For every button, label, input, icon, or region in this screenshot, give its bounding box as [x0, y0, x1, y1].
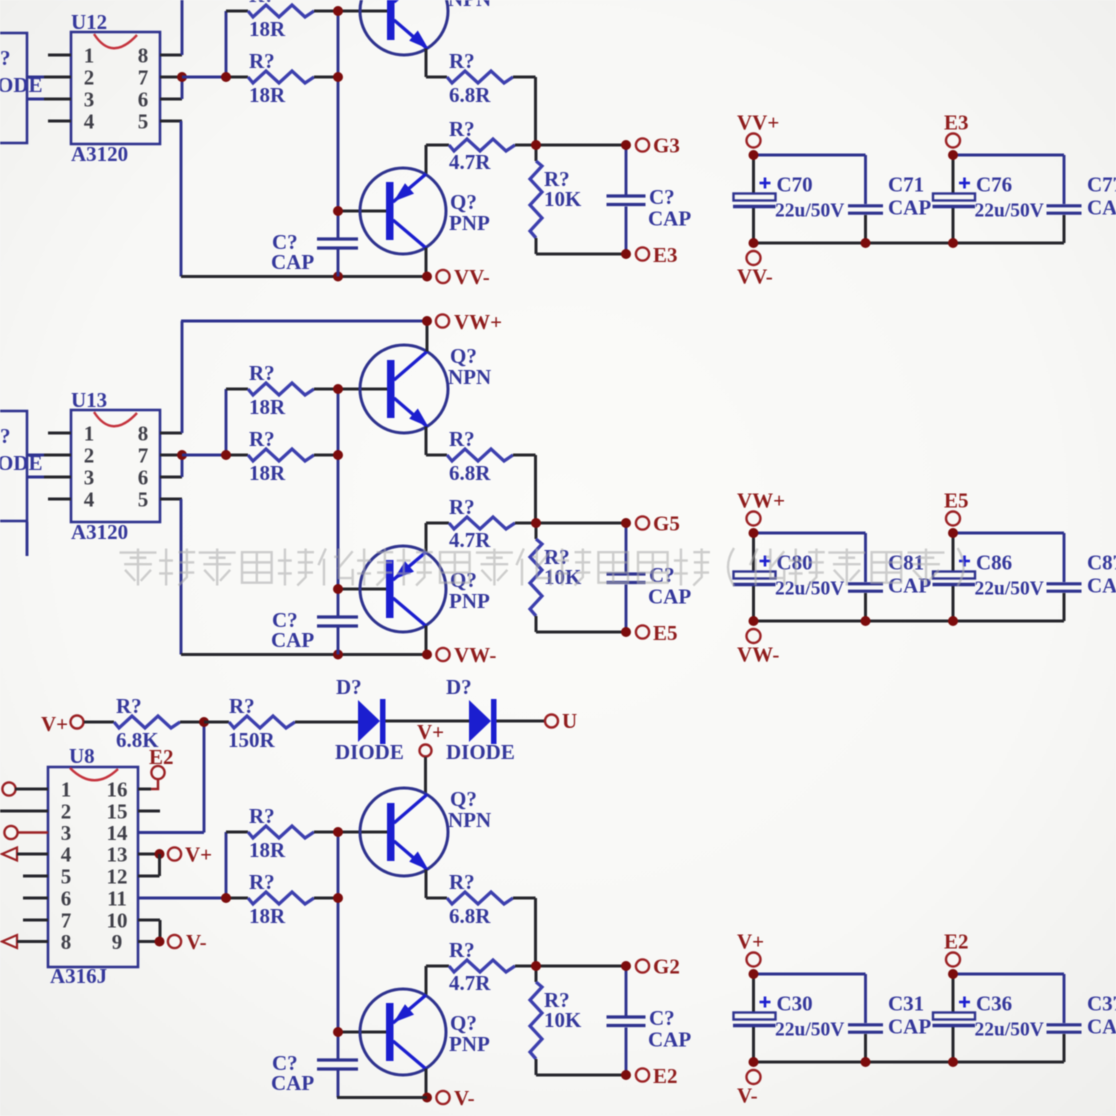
svg-text:4: 4: [84, 110, 95, 134]
svg-text:14: 14: [107, 821, 129, 845]
svg-text:PNP: PNP: [449, 211, 490, 235]
svg-text:16: 16: [107, 778, 128, 802]
svg-text:V-: V-: [737, 1084, 758, 1108]
svg-text:VW-: VW-: [454, 643, 496, 667]
svg-text:5: 5: [138, 488, 149, 512]
svg-text:CAP: CAP: [1087, 574, 1116, 598]
svg-text:C77: C77: [1087, 173, 1116, 197]
svg-text:13: 13: [107, 843, 128, 867]
svg-text:CAP: CAP: [271, 1071, 314, 1095]
svg-text:C?: C?: [649, 1006, 675, 1030]
svg-text:A3120: A3120: [71, 520, 128, 544]
svg-text:E5: E5: [944, 489, 969, 513]
svg-text:CAP: CAP: [888, 1015, 931, 1039]
svg-text:E3: E3: [944, 111, 969, 135]
svg-text:CAP: CAP: [271, 250, 314, 274]
svg-text:22u/50V: 22u/50V: [975, 579, 1044, 600]
svg-text:6: 6: [138, 466, 149, 490]
svg-text:1: 1: [84, 44, 95, 68]
svg-text:18R: 18R: [249, 395, 286, 419]
svg-text:4.7R: 4.7R: [449, 971, 491, 995]
svg-text:CAP: CAP: [648, 207, 691, 231]
svg-text:5: 5: [61, 865, 72, 889]
svg-text:1: 1: [61, 778, 72, 802]
svg-text:11: 11: [107, 887, 127, 911]
svg-text:C71: C71: [888, 173, 924, 197]
svg-text:10K: 10K: [544, 1008, 582, 1032]
svg-text:R?: R?: [249, 0, 275, 7]
svg-text:6.8R: 6.8R: [449, 83, 491, 107]
svg-text:8: 8: [138, 422, 149, 446]
svg-text:7: 7: [61, 909, 72, 933]
svg-text:4: 4: [84, 488, 95, 512]
svg-text:C87: C87: [1087, 551, 1116, 575]
svg-text:G2: G2: [653, 955, 680, 979]
svg-text:V-: V-: [454, 1086, 475, 1110]
svg-text:U12: U12: [71, 10, 107, 34]
svg-text:150R: 150R: [228, 728, 276, 752]
svg-text:R?: R?: [249, 870, 275, 894]
svg-text:G5: G5: [653, 512, 680, 536]
svg-text:C?: C?: [649, 185, 675, 209]
svg-text:6.8K: 6.8K: [116, 728, 159, 752]
svg-text:6.8R: 6.8R: [449, 904, 491, 928]
svg-text:9: 9: [112, 930, 123, 954]
svg-text:?: ?: [0, 46, 11, 70]
svg-text:U: U: [562, 709, 577, 733]
svg-text:22u/50V: 22u/50V: [775, 1020, 844, 1041]
svg-text:2: 2: [84, 444, 95, 468]
svg-text:18R: 18R: [249, 17, 286, 41]
svg-text:NPN: NPN: [448, 0, 491, 11]
svg-text:4: 4: [61, 843, 72, 867]
svg-text:10: 10: [107, 909, 128, 933]
svg-text:6.8R: 6.8R: [449, 461, 491, 485]
svg-text:A316J: A316J: [50, 964, 107, 988]
svg-text:VV+: VV+: [737, 111, 779, 135]
svg-text:8: 8: [61, 930, 72, 954]
svg-text:DIODE: DIODE: [335, 740, 404, 764]
svg-text:R?: R?: [229, 694, 255, 718]
svg-text:VW-: VW-: [737, 643, 779, 667]
svg-text:R?: R?: [249, 361, 275, 385]
svg-text:4.7R: 4.7R: [449, 528, 491, 552]
svg-text:CAP: CAP: [1087, 1015, 1116, 1039]
svg-text:VV-: VV-: [454, 265, 490, 289]
svg-text:22u/50V: 22u/50V: [975, 1020, 1044, 1041]
svg-text:D?: D?: [446, 675, 472, 699]
svg-text:U13: U13: [71, 388, 107, 412]
svg-text:C70: C70: [777, 173, 813, 197]
svg-text:6: 6: [61, 887, 72, 911]
svg-text:V+: V+: [417, 720, 444, 744]
svg-text:ODE: ODE: [0, 451, 43, 475]
svg-text:1: 1: [84, 422, 95, 446]
svg-text:A3120: A3120: [71, 142, 128, 166]
svg-text:2: 2: [61, 800, 72, 824]
svg-text:2: 2: [84, 66, 95, 90]
svg-text:R?: R?: [449, 495, 475, 519]
svg-text:R?: R?: [249, 427, 275, 451]
svg-text:E2: E2: [653, 1064, 678, 1088]
svg-text:18R: 18R: [249, 83, 286, 107]
svg-text:V+: V+: [41, 712, 68, 736]
svg-text:C31: C31: [888, 992, 924, 1016]
svg-text:15: 15: [107, 800, 128, 824]
svg-text:C37: C37: [1087, 992, 1116, 1016]
svg-text:CAP: CAP: [271, 628, 314, 652]
svg-text:V-: V-: [186, 930, 207, 954]
svg-text:PNP: PNP: [449, 1032, 490, 1056]
svg-text:CAP: CAP: [1087, 196, 1116, 220]
svg-text:R?: R?: [249, 49, 275, 73]
svg-text:R?: R?: [116, 694, 142, 718]
svg-text:VW+: VW+: [737, 489, 785, 513]
svg-text:18R: 18R: [249, 838, 286, 862]
svg-text:7: 7: [138, 444, 149, 468]
svg-text:R?: R?: [449, 49, 475, 73]
svg-text:R?: R?: [449, 117, 475, 141]
svg-text:E2: E2: [944, 930, 969, 954]
svg-text:E3: E3: [653, 243, 678, 267]
svg-text:ODE: ODE: [0, 73, 43, 97]
svg-text:3: 3: [84, 466, 95, 490]
svg-text:CAP: CAP: [648, 585, 691, 609]
svg-text:?: ?: [0, 424, 11, 448]
svg-text:CAP: CAP: [648, 1028, 691, 1052]
svg-text:C86: C86: [976, 551, 1012, 575]
svg-text:VV-: VV-: [737, 265, 773, 289]
svg-text:C76: C76: [976, 173, 1012, 197]
svg-text:6: 6: [138, 88, 149, 112]
svg-text:D?: D?: [336, 675, 362, 699]
svg-text:12: 12: [107, 865, 128, 889]
svg-text:U8: U8: [69, 744, 95, 768]
svg-text:R?: R?: [449, 938, 475, 962]
svg-text:22u/50V: 22u/50V: [775, 201, 844, 222]
svg-text:CAP: CAP: [888, 196, 931, 220]
svg-text:R?: R?: [249, 804, 275, 828]
svg-text:E5: E5: [653, 621, 678, 645]
svg-text:V+: V+: [185, 843, 212, 867]
svg-text:NPN: NPN: [448, 365, 491, 389]
svg-text:G3: G3: [653, 134, 680, 158]
svg-text:4.7R: 4.7R: [449, 150, 491, 174]
svg-text:V+: V+: [737, 930, 764, 954]
svg-text:PNP: PNP: [449, 589, 490, 613]
svg-text:DIODE: DIODE: [446, 740, 515, 764]
svg-text:10K: 10K: [544, 187, 582, 211]
svg-text:NPN: NPN: [448, 808, 491, 832]
svg-text:18R: 18R: [249, 461, 286, 485]
svg-text:5: 5: [138, 110, 149, 134]
svg-text:3: 3: [84, 88, 95, 112]
svg-text:8: 8: [138, 44, 149, 68]
svg-text:R?: R?: [449, 427, 475, 451]
svg-text:3: 3: [61, 821, 72, 845]
svg-text:18R: 18R: [249, 904, 286, 928]
svg-text:7: 7: [138, 66, 149, 90]
svg-text:VW+: VW+: [454, 310, 502, 334]
svg-text:C36: C36: [976, 992, 1012, 1016]
svg-text:22u/50V: 22u/50V: [975, 201, 1044, 222]
svg-text:C30: C30: [777, 992, 813, 1016]
svg-text:R?: R?: [449, 870, 475, 894]
